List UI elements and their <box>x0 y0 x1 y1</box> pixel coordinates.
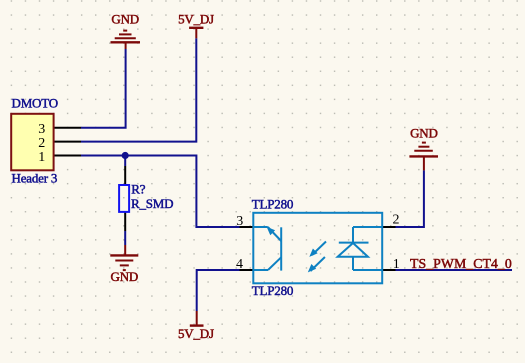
svg-text:Header 3: Header 3 <box>12 170 58 185</box>
svg-text:TLP280: TLP280 <box>252 196 293 211</box>
svg-text:GND: GND <box>111 269 139 284</box>
svg-text:GND: GND <box>111 12 139 27</box>
svg-text:2: 2 <box>38 136 45 151</box>
svg-text:5V_DJ: 5V_DJ <box>178 326 214 341</box>
svg-text:3: 3 <box>236 214 243 229</box>
svg-text:R_SMD: R_SMD <box>131 196 173 211</box>
svg-text:4: 4 <box>236 257 243 272</box>
svg-text:GND: GND <box>410 126 438 141</box>
svg-text:1: 1 <box>38 150 45 165</box>
svg-text:2: 2 <box>393 213 400 228</box>
svg-text:3: 3 <box>38 122 45 137</box>
svg-text:5V_DJ: 5V_DJ <box>178 11 214 26</box>
svg-text:TLP280: TLP280 <box>252 283 293 298</box>
svg-text:R?: R? <box>131 182 145 197</box>
svg-text:DMOTO: DMOTO <box>12 96 58 111</box>
svg-text:1: 1 <box>393 257 400 272</box>
svg-text:TS_PWM_CT4_0: TS_PWM_CT4_0 <box>410 256 512 271</box>
